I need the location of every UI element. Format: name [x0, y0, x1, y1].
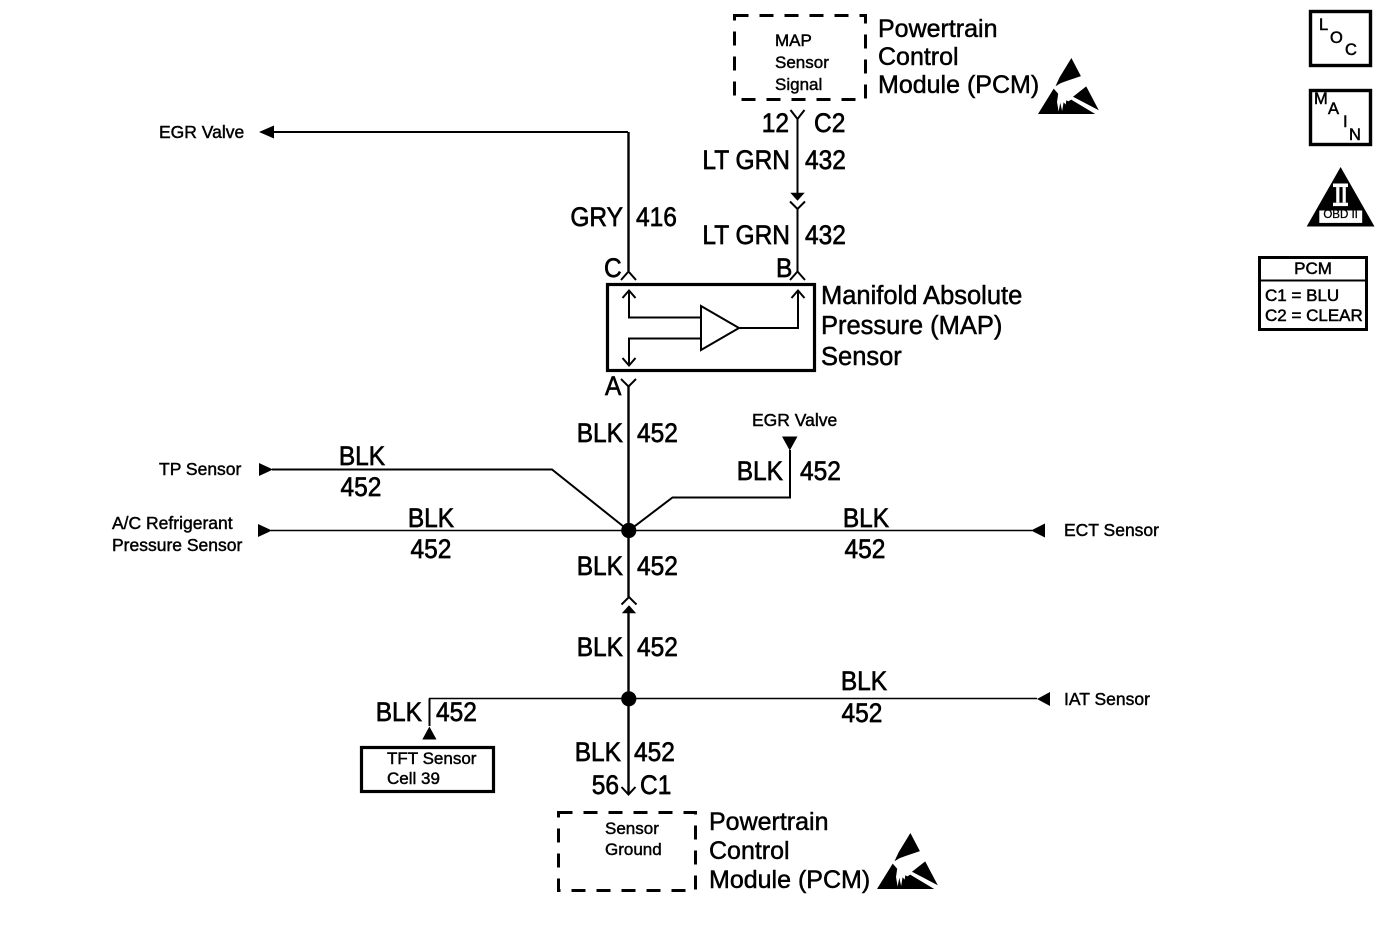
label: pin A [605, 374, 621, 401]
splice node S1 [621, 523, 636, 538]
wire: BLK 452 from connector down to splice node 2 [627, 611, 629, 699]
label: BLK wire color (ECT branch) [843, 506, 889, 533]
wire: ground bus horizontal BLK 452 [429, 698, 1037, 700]
label: 452 circuit number (ECT branch) [845, 537, 886, 564]
label: 452 circuit number (TP branch) [341, 475, 382, 502]
LOC reference box [1311, 12, 1371, 66]
wire: BLK 452 from pin A down to splice node [627, 387, 629, 531]
label: BLK wire color (above in-line connector) [577, 554, 623, 581]
splice node S2 [621, 691, 636, 706]
label: BLK wire color (A/C branch) [408, 506, 454, 533]
dashed box: Sensor Ground (PCM) [559, 813, 696, 891]
label: 452 circuit number (to pin 56) [634, 740, 675, 767]
text: Powertrain Control Module (PCM) top [878, 15, 1039, 100]
text: Sensor Ground box [605, 818, 662, 861]
label: 452 circuit number (IAT branch) [842, 701, 883, 728]
wire: branch to EGR Valve BLK 452 [629, 450, 790, 531]
connector symbol at pin B [790, 272, 805, 281]
label: connector C2 [814, 111, 845, 138]
label: TP Sensor [159, 461, 241, 479]
arrowhead from A/C Refrigerant Pressure Sensor [258, 524, 272, 537]
MAIN reference box [1311, 91, 1371, 145]
text: PCM legend C2 = CLEAR [1265, 307, 1363, 324]
label: BLK wire color (to pin 56) [575, 740, 621, 767]
label: GRY wire color [570, 205, 623, 232]
label: A/C Refrigerant Pressure Sensor [112, 513, 242, 557]
text: LOC symbol letters [1319, 17, 1328, 34]
MAP sensor internal: output to pin B with up arrow [739, 292, 798, 328]
TFT Sensor box [362, 748, 494, 792]
connector symbol at pin C [621, 272, 636, 281]
text: PCM legend C1 = BLU [1265, 287, 1339, 304]
text: MAIN symbol letters [1314, 91, 1328, 108]
label: 452 circuit number (below in-line connector) [637, 635, 678, 662]
text: Manifold Absolute Pressure (MAP) Sensor [821, 281, 1022, 373]
label: 416 circuit number [636, 205, 677, 232]
connector symbol at pin 56 C1 [622, 787, 636, 795]
wire: MAP sensor signal from PCM pin 12 C2 [791, 110, 805, 194]
arrowhead to EGR Valve (left) [259, 126, 274, 139]
label: BLK wire color (pin A drop) [577, 421, 623, 448]
ESD symbol (top, PCM) [1038, 58, 1099, 114]
label: 452 circuit number (EGR branch) [800, 459, 841, 486]
wire: BLK 452 from splice down to in-line connector [627, 531, 629, 598]
MAP sensor box [608, 285, 815, 371]
label: BLK wire color (IAT branch) [841, 669, 887, 696]
in-line connector (male half, filled up arrow) [622, 605, 636, 613]
label: BLK wire color (below in-line connector) [577, 635, 623, 662]
arrowhead to IAT Sensor [1037, 692, 1050, 706]
dashed box: MAP Sensor Signal (PCM) [735, 16, 866, 100]
label: 432 circuit number (lower) [805, 223, 846, 250]
wire: A/C Refrigerant Pressure Sensor BLK 452 [271, 530, 628, 532]
PCM connector legend table [1259, 258, 1367, 330]
label: 452 circuit number (above in-line connector) [637, 554, 678, 581]
label: 452 circuit number (A/C branch) [411, 537, 452, 564]
label: pin C [604, 256, 622, 283]
arrowhead to EGR Valve (down) [782, 437, 798, 451]
text: MAP Sensor Signal box [775, 30, 829, 96]
arrowhead to TFT Sensor (up) [422, 727, 436, 740]
in-line connector (male half, filled arrow) on LT GRN 432 [790, 193, 804, 201]
wire: BLK 452 to PCM pin 56 C1 [627, 706, 629, 794]
label: BLK wire color (TFT branch) [376, 700, 422, 727]
MAP sensor internal: amplifier triangle [701, 306, 739, 350]
label: pin 56 [592, 773, 619, 800]
wire: GRY 416 vertical drop to pin C [627, 132, 629, 271]
wire: EGR Valve feed (GRY 416) horizontal run [272, 131, 628, 133]
label: LT GRN wire color (upper) [702, 148, 790, 175]
label: 452 circuit number (TFT branch) [436, 700, 477, 727]
ESD symbol (bottom, PCM) [877, 833, 938, 889]
in-line connector (female half, chevron up) [622, 597, 637, 605]
label: BLK wire color (TP branch) [339, 444, 385, 471]
wire: TP Sensor BLK 452 [272, 470, 629, 531]
label: 452 circuit number (pin A drop) [637, 421, 678, 448]
wire: ECT Sensor BLK 452 [629, 530, 1032, 532]
MAP sensor internal: upper input arrow at pin C [629, 292, 700, 318]
connector symbol at pin A [621, 379, 636, 387]
label: ECT Sensor [1064, 522, 1159, 540]
arrowhead from TP Sensor [259, 463, 273, 476]
wire: branch to TFT Sensor BLK 452 [429, 699, 431, 727]
label: EGR Valve (branch destination) [752, 412, 837, 430]
label: LT GRN wire color (lower) [702, 223, 790, 250]
in-line connector (female half, chevron) on LT GRN 432 [790, 202, 805, 272]
arrowhead to ECT Sensor [1031, 524, 1045, 538]
label: EGR Valve (top destination) [159, 124, 244, 142]
text: TFT Sensor Cell 39 box [387, 749, 476, 789]
label: IAT Sensor [1064, 691, 1150, 709]
label: pin 12 [762, 111, 789, 138]
OBD II triangle symbol [1307, 167, 1375, 227]
label: BLK wire color (EGR branch) [737, 459, 783, 486]
text: OBD II label [1323, 210, 1358, 222]
MAP sensor internal: lower arrow to pin A [629, 339, 700, 365]
label: 432 circuit number (upper) [805, 148, 846, 175]
text: PCM legend header [1294, 260, 1332, 277]
label: connector C1 [640, 773, 671, 800]
text: Powertrain Control Module (PCM) bottom [709, 808, 870, 895]
label: pin B [776, 256, 792, 283]
